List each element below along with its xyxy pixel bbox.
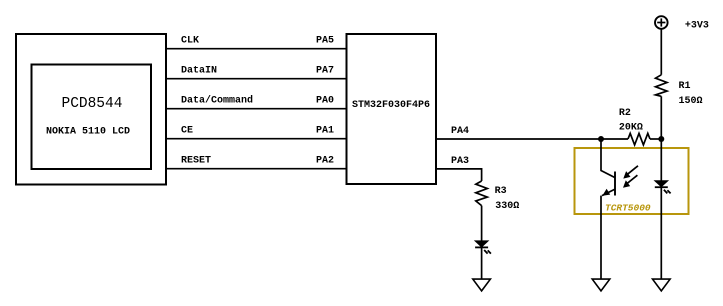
wire PA4 net (MCU to node A) [436, 138, 628, 140]
svg-text:NOKIA 5110 LCD: NOKIA 5110 LCD [46, 127, 130, 138]
junction node B (R1 / R2 / LED D1) [658, 136, 664, 142]
wire +3V3 to R1 [660, 29, 662, 75]
resistor R2 [628, 133, 650, 145]
wire emitter to ground [600, 196, 602, 280]
svg-text:PA5: PA5 [316, 36, 334, 47]
wire Data/Command net (LCD to PA0) [166, 108, 347, 110]
svg-text:Data/Command: Data/Command [181, 94, 253, 106]
svg-text:R1: R1 [679, 81, 691, 92]
IR LED D1 [655, 181, 671, 194]
TCRT5000 enclosure box [575, 148, 689, 214]
svg-text:CE: CE [181, 125, 193, 136]
ground (LED D1 branch) [653, 279, 671, 291]
wire RESET net (LCD to PA2) [166, 168, 347, 170]
svg-text:STM32F030F4P6: STM32F030F4P6 [352, 100, 430, 111]
svg-text:R2: R2 [619, 108, 631, 119]
ground (phototransistor branch) [592, 279, 610, 291]
wire CE net (LCD to PA1) [166, 138, 347, 140]
svg-text:TCRT5000: TCRT5000 [605, 203, 651, 214]
junction node A (PA4 / phototransistor) [598, 136, 604, 142]
svg-text:PA7: PA7 [316, 65, 334, 76]
LCD module inner box [32, 65, 152, 170]
wire CLK net (LCD to PA5) [166, 48, 347, 50]
svg-text:DataIN: DataIN [181, 65, 217, 76]
svg-text:PA2: PA2 [316, 155, 334, 166]
svg-text:330Ω: 330Ω [495, 201, 519, 212]
resistor R1 [656, 75, 668, 97]
wire PA3 net (MCU to R3) [436, 169, 482, 181]
LED D2 [475, 241, 491, 254]
svg-text:PA4: PA4 [451, 126, 469, 137]
ground (R3/LED branch) [473, 279, 491, 291]
MCU U1 STM32F030F4P6 box [347, 34, 437, 184]
svg-text:PA1: PA1 [316, 125, 334, 136]
svg-text:+3V3: +3V3 [685, 20, 709, 31]
svg-text:PA3: PA3 [451, 156, 469, 167]
phototransistor Q1 [601, 139, 639, 196]
wire LED D2 to ground [481, 247, 483, 279]
LCD module outer box [16, 34, 166, 185]
wire LED D1 to ground [660, 187, 662, 279]
svg-text:RESET: RESET [181, 155, 211, 166]
wire R2 to node B [650, 138, 661, 140]
svg-text:20KΩ: 20KΩ [619, 123, 643, 134]
wire DataIN net (LCD to PA7) [166, 78, 347, 80]
wire R3 to LED D2 [481, 206, 483, 241]
svg-text:R3: R3 [495, 186, 507, 197]
wire R1 to node B [660, 96, 662, 139]
power +3V3 terminal [655, 16, 668, 29]
svg-text:CLK: CLK [181, 36, 199, 47]
wire node B to LED D1 [660, 139, 662, 181]
svg-text:PA0: PA0 [316, 95, 334, 106]
svg-text:PCD8544: PCD8544 [62, 96, 123, 112]
svg-text:150Ω: 150Ω [679, 96, 703, 107]
resistor R3 [476, 181, 488, 206]
